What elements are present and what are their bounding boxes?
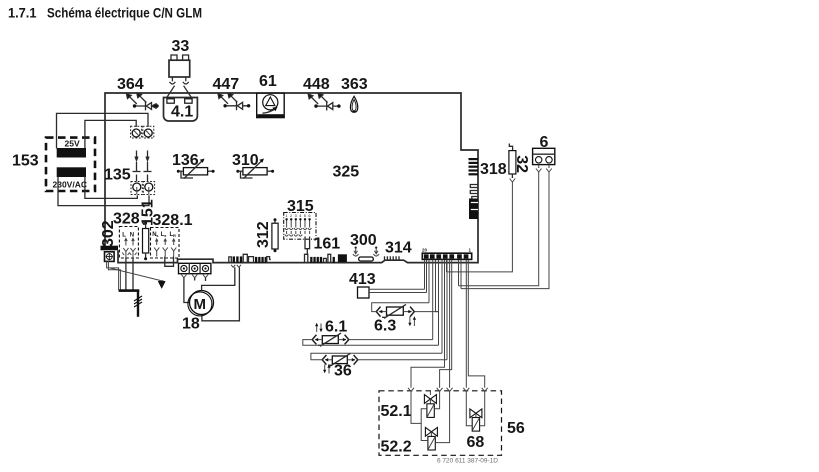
resistor 312 (vertical) [255,218,278,252]
svg-text:6: 6 [308,214,310,218]
LED 448 [303,76,341,111]
valve 52.1 [424,391,436,417]
20-pin edge connector X [422,248,472,260]
jumper loop below 315 [305,237,310,249]
svg-text:135: 135 [104,167,131,184]
resistor 32 (vertical) [447,144,531,272]
control box 413 [349,271,427,298]
svg-text:M: M [194,296,207,313]
solenoid valve assembly dashed box 56 [379,391,525,465]
valve 68 [470,409,482,431]
pump motor 18 wiring [184,267,240,321]
svg-text:5: 5 [304,214,306,218]
flow switch 300 [350,232,379,261]
svg-text:364: 364 [117,76,144,93]
svg-text:18: 18 [182,316,200,333]
safety limiter 61 [257,73,285,118]
svg-text:1.7.1: 1.7.1 [8,5,37,21]
valve 52.2 [425,427,437,450]
svg-text:36: 36 [334,363,352,380]
svg-text:L: L [122,233,126,239]
svg-text:56: 56 [507,420,525,437]
svg-text:1: 1 [285,214,287,218]
svg-text:4.1: 4.1 [171,104,193,121]
jumper loop below 328.1 [165,257,174,267]
mains cable: L N and earth join to thick lead with strain relief [107,258,165,317]
transformer secondary winding bar [57,167,86,177]
svg-text:33: 33 [172,38,190,55]
svg-text:310: 310 [232,152,259,169]
transformer 153 dashed box [46,138,95,191]
svg-text:68: 68 [467,434,485,451]
wire bundle from connector X [411,260,485,388]
svg-text:6.1: 6.1 [325,319,347,336]
svg-text:4: 4 [299,214,301,218]
svg-text:6 720 611 387-09-1D: 6 720 611 387-09-1D [437,458,498,465]
resistor 151 (vertical) with leads [140,199,157,260]
pump motor 18 [182,291,214,333]
bus edge comb 161 group [305,236,341,264]
svg-text:153: 153 [12,153,39,170]
ignition transformer 33 [167,38,192,98]
connector 328.1 (dashed box, Ns Lx Lr) [151,212,193,266]
room thermostat connector 6 [459,134,555,289]
wire trafo bottom-left to right screw terminal [58,177,149,206]
bus edge comb 314 [385,240,412,261]
control unit main box outline [105,93,478,263]
LED 364 [117,76,159,110]
wire trafo top-left to right lamp terminal [57,113,149,148]
svg-text:3: 3 [295,214,297,218]
svg-text:363: 363 [341,76,368,93]
potentiometer 136 [172,152,215,179]
svg-text:25V: 25V [65,139,80,149]
transformer primary winding bar [57,148,86,158]
svg-text:136: 136 [172,152,199,169]
svg-text:2: 2 [290,214,292,218]
connector 4.1 box [164,98,198,122]
mains connector 328 (dashed box, L N) [113,211,140,259]
wire trafo bottom-right to left screw terminal [85,177,137,199]
svg-text:312: 312 [255,221,272,248]
svg-text:328: 328 [113,211,140,228]
node 302 PCB edge terminal (thick bar) [101,246,119,251]
svg-text:20: 20 [422,248,428,253]
comb terminal above motor wires [229,256,242,267]
valve wiring inside box [411,392,485,443]
bus black block [338,254,347,262]
right edge comb 318 [469,158,507,219]
svg-text:328.1: 328.1 [153,212,193,229]
svg-text:N: N [130,233,134,239]
ionisation electrode flame 363 [341,76,368,113]
screw terminals below 135 (dashed) [131,182,155,195]
NTC sensor 6.3 [372,303,439,335]
earth continuation arrow [110,268,161,281]
svg-text:52.2: 52.2 [381,439,412,456]
svg-text:300: 300 [350,232,377,249]
svg-text:447: 447 [213,76,240,93]
NTC sensor 36 [311,353,447,379]
bus edge comb left group [243,254,271,263]
svg-text:413: 413 [349,271,376,288]
connector 315 (dash-dot box with 6 pins) [284,198,316,255]
NTC sensor 6.1 [303,319,439,347]
plug hooks at valve box top [408,388,488,392]
svg-text:R: R [173,233,176,238]
svg-text:448: 448 [303,76,330,93]
lamp holder terminals below 364 (two dashed screw circles) [131,126,154,138]
svg-text:61: 61 [259,73,277,90]
svg-text:52.1: 52.1 [381,403,412,420]
svg-text:Schéma électrique C/N GLM: Schéma électrique C/N GLM [47,5,202,21]
switch 135 contacts [133,151,152,182]
svg-text:161: 161 [314,236,341,253]
svg-text:314: 314 [385,240,412,257]
wire trafo top-right to left lamp terminal [85,120,136,148]
svg-text:325: 325 [333,164,360,181]
svg-text:6.3: 6.3 [374,318,396,335]
svg-text:318: 318 [480,161,507,178]
potentiometer 310 [232,152,274,179]
earth terminal box with circle-cross [105,252,115,262]
LED 447 [213,76,251,110]
pump terminal block (3 circles) [179,263,211,278]
